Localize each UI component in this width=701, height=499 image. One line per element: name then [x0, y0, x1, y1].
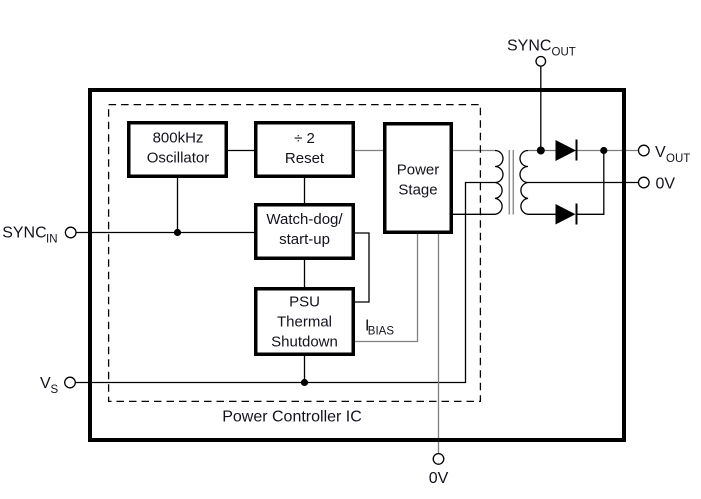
wire power stage to transformer primary bottom: [453, 213, 495, 215]
svg-text:V: V: [655, 144, 666, 161]
svg-text:Stage: Stage: [398, 181, 437, 198]
wire SYNC_OUT to secondary top: [540, 67, 542, 151]
terminal 0V right: [639, 177, 650, 188]
terminal 0V bottom: [433, 454, 444, 465]
diode D2 bottom: [556, 204, 576, 225]
svg-text:PSU: PSU: [289, 294, 320, 311]
node junction Vs/PSU: [301, 379, 308, 386]
svg-text:÷ 2: ÷ 2: [294, 130, 315, 147]
block PSU Thermal Shutdown: [256, 289, 354, 355]
block Watch-dog / start-up: [256, 205, 354, 259]
wire Vs rail to transformer primary centre tap: [75, 183, 495, 383]
svg-text:SYNC: SYNC: [2, 225, 46, 242]
wire SYNC_IN rail: [76, 232, 254, 234]
svg-text:800kHz: 800kHz: [153, 129, 204, 146]
wire power stage to 0V bottom terminal: [438, 234, 440, 454]
wire secondary mid tap to 0V right terminal: [528, 182, 639, 184]
block 800kHz Oscillator: [129, 123, 227, 177]
terminal Vs: [65, 377, 76, 388]
transformer T1 primary winding: [495, 151, 503, 215]
wire watch-dog bottom to PSU: [304, 260, 306, 287]
wire reset bottom to watch-dog: [304, 178, 306, 203]
svg-text:BIAS: BIAS: [368, 326, 395, 338]
block divide-by-2 Reset: [256, 123, 354, 177]
svg-text:start-up: start-up: [279, 231, 330, 248]
wire oscillator bottom to SYNC_IN rail: [177, 178, 179, 233]
wire secondary bottom to diode D2: [528, 213, 556, 215]
wire oscillator to reset: [228, 150, 254, 152]
transformer T1 core: [508, 150, 510, 215]
wire watch-dog to PSU feedback bracket: [355, 233, 369, 302]
svg-text:IN: IN: [46, 233, 58, 245]
svg-text:Watch-dog/: Watch-dog/: [266, 211, 343, 228]
wire Ibias PSU to power stage: [355, 234, 418, 342]
svg-text:0V: 0V: [656, 175, 676, 192]
terminal SYNC_OUT: [536, 57, 546, 67]
svg-text:OUT: OUT: [666, 153, 690, 165]
svg-text:Reset: Reset: [285, 150, 325, 167]
wire reset to power stage: [355, 150, 383, 152]
svg-text:Power: Power: [397, 161, 440, 178]
svg-text:Power Controller IC: Power Controller IC: [222, 409, 362, 426]
node junction SYNC_OUT/secondary: [537, 147, 545, 155]
svg-text:V: V: [40, 375, 51, 392]
wire diode D2 up to Vout junction: [577, 151, 604, 215]
node junction Vout: [600, 147, 607, 154]
dashed Power Controller IC boundary: [109, 105, 481, 402]
node junction SYNC_IN/oscillator: [174, 229, 181, 236]
diode D1 top: [556, 140, 577, 161]
svg-text:OUT: OUT: [552, 47, 576, 59]
svg-text:SYNC: SYNC: [507, 37, 551, 54]
outer power supply module box: [90, 90, 624, 440]
terminal SYNC_IN: [65, 227, 76, 238]
svg-text:Oscillator: Oscillator: [147, 149, 210, 166]
terminal Vout: [639, 145, 650, 156]
wire diode D1 to Vout terminal: [577, 150, 639, 152]
block Power Stage: [385, 124, 452, 233]
wire secondary top to diode D1: [528, 150, 556, 152]
svg-text:Thermal: Thermal: [277, 314, 332, 331]
svg-text:Shutdown: Shutdown: [271, 333, 338, 350]
svg-text:0V: 0V: [429, 470, 449, 487]
transformer T1 secondary winding: [520, 151, 528, 215]
svg-text:S: S: [51, 384, 59, 396]
wire power stage to transformer primary top: [453, 150, 495, 152]
wire PSU bottom to Vs rail: [304, 356, 306, 383]
